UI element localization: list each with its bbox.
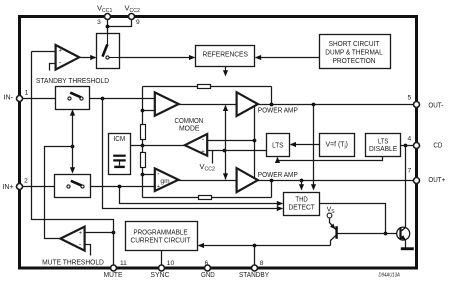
svg-text:MODE: MODE <box>179 124 200 133</box>
svg-text:5: 5 <box>407 95 411 102</box>
svg-text:7: 7 <box>407 168 411 175</box>
svg-text:11: 11 <box>120 260 127 267</box>
svg-text:STANDBY: STANDBY <box>239 270 269 279</box>
svg-text:POWER AMP: POWER AMP <box>258 105 298 114</box>
svg-text:IN+: IN+ <box>3 182 14 191</box>
svg-text:1: 1 <box>25 90 29 97</box>
svg-text:3: 3 <box>97 19 101 26</box>
svg-text:CD: CD <box>433 141 442 150</box>
svg-text:10: 10 <box>167 260 175 267</box>
svg-text:IN-: IN- <box>4 93 14 102</box>
svg-text:6: 6 <box>205 260 209 267</box>
svg-text:MUTE THRESHOLD: MUTE THRESHOLD <box>42 258 104 267</box>
svg-text:STANDBY THRESHOLD: STANDBY THRESHOLD <box>36 76 109 85</box>
svg-text:4: 4 <box>407 135 411 142</box>
svg-text:PROTECTION: PROTECTION <box>332 56 375 65</box>
svg-text:DETECT: DETECT <box>289 203 316 212</box>
svg-text:GND: GND <box>201 270 215 279</box>
svg-text:8: 8 <box>260 260 264 267</box>
svg-text:+: + <box>201 149 205 155</box>
svg-text:2: 2 <box>24 177 28 184</box>
svg-text:LTS: LTS <box>272 141 284 150</box>
svg-text:gm: gm <box>160 178 170 185</box>
svg-text:D94AU13A: D94AU13A <box>379 273 400 279</box>
svg-text:POWER AMP: POWER AMP <box>258 170 298 179</box>
svg-text:9: 9 <box>136 19 140 26</box>
svg-text:CURRENT CIRCUIT: CURRENT CIRCUIT <box>131 236 191 245</box>
svg-text:SYNC: SYNC <box>150 270 170 279</box>
svg-text:OUT+: OUT+ <box>428 175 445 184</box>
svg-text:DISABLE: DISABLE <box>369 144 397 153</box>
svg-text:MUTE: MUTE <box>104 270 123 279</box>
svg-text:ICM: ICM <box>114 134 126 143</box>
svg-text:OUT-: OUT- <box>428 101 444 110</box>
svg-text:REFERENCES: REFERENCES <box>202 50 248 59</box>
